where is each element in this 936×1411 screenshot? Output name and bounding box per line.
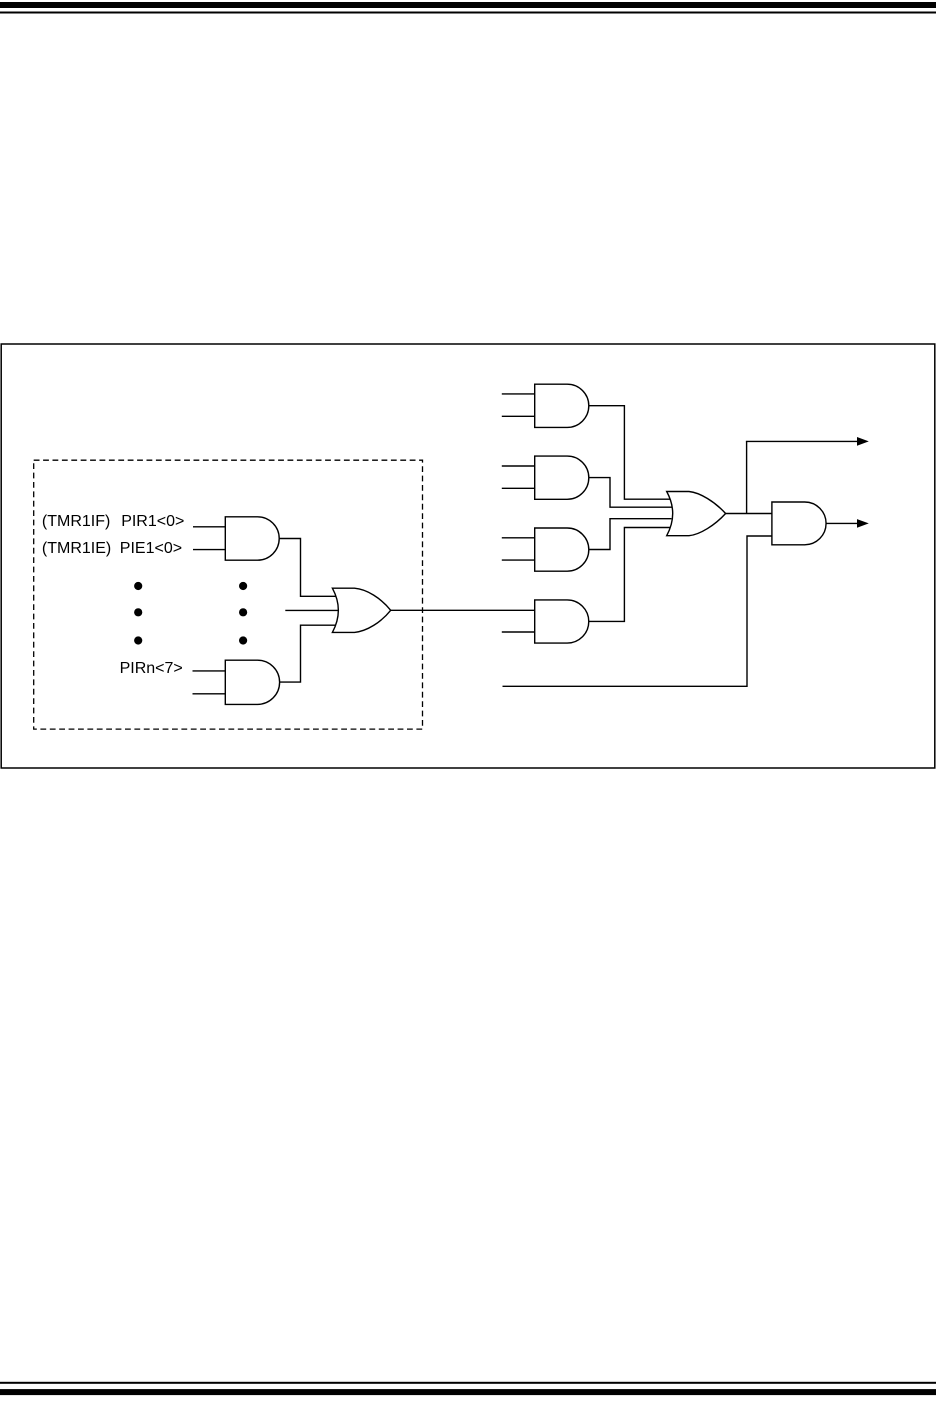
page top rule thick (0, 2, 936, 8)
wire U6 output to U8 input 3 (589, 519, 672, 550)
AND gate U7 (peripheral enable) (535, 600, 589, 643)
figure frame (1, 344, 935, 768)
wire U4 output to U8 input 1 (589, 406, 670, 500)
wire wake-up branch vertical (746, 441, 748, 513)
wire wake-up output run (746, 440, 858, 442)
dashed enclosure (peripheral interrupt block) (34, 460, 423, 729)
ellipsis dots right column (239, 582, 247, 645)
svg-text:PIRn<7>: PIRn<7> (120, 660, 183, 677)
wire PIRn input stub to U2 (193, 670, 227, 672)
wire U7 input stub bottom (502, 631, 535, 633)
svg-text:PIR1<0>: PIR1<0> (121, 513, 184, 530)
wire PIR1 input stub to U1 (193, 526, 226, 528)
arrow interrupt to CPU output (857, 519, 869, 528)
wire interrupt output run (826, 522, 858, 524)
wire U2 lower input stub (193, 693, 227, 695)
svg-text:PIE1<0>: PIE1<0> (120, 540, 182, 557)
wire U4 input stub bottom (502, 415, 535, 417)
AND gate U4 (535, 384, 589, 427)
wire U6 input stub top (502, 537, 535, 539)
page bottom rule thick (0, 1389, 936, 1395)
wire U5 input stub top (502, 465, 535, 467)
page bottom rule thin (0, 1382, 936, 1384)
OR gate U3 (peripheral OR) (332, 588, 390, 632)
arrow wake-up output (857, 437, 869, 446)
wire PIE1 input stub to U1 (193, 549, 226, 551)
svg-text:(TMR1IF): (TMR1IF) (42, 513, 110, 530)
OR gate U8 (667, 492, 726, 536)
AND gate U1 (TMR1 pair) (225, 517, 279, 560)
AND gate U5 (535, 456, 589, 499)
wire U5 output to U8 input 2 (589, 478, 672, 508)
AND gate U6 (535, 528, 589, 571)
wire U4 input stub top (502, 393, 535, 395)
wire U1 output to U3 top input (279, 539, 336, 597)
wire U7 output to U8 input 4 (589, 528, 670, 622)
wire U5 input stub bottom (502, 487, 535, 489)
AND gate U2 (PIRn pair) (225, 660, 279, 704)
AND gate U9 (final interrupt AND) (772, 502, 826, 545)
wire U2 output to U3 bottom input (279, 625, 336, 682)
wire U3 output to U7 top input (390, 609, 535, 611)
ellipsis dots left column (134, 582, 142, 645)
wire U6 input stub bottom (502, 559, 535, 561)
wire ellipsis stub to U3 middle input (285, 609, 340, 611)
wire GIE bottom run (503, 536, 773, 686)
svg-text:(TMR1IE): (TMR1IE) (42, 540, 111, 557)
wire U8 output to U9 top input (725, 513, 772, 515)
page top rule thin (0, 12, 936, 14)
